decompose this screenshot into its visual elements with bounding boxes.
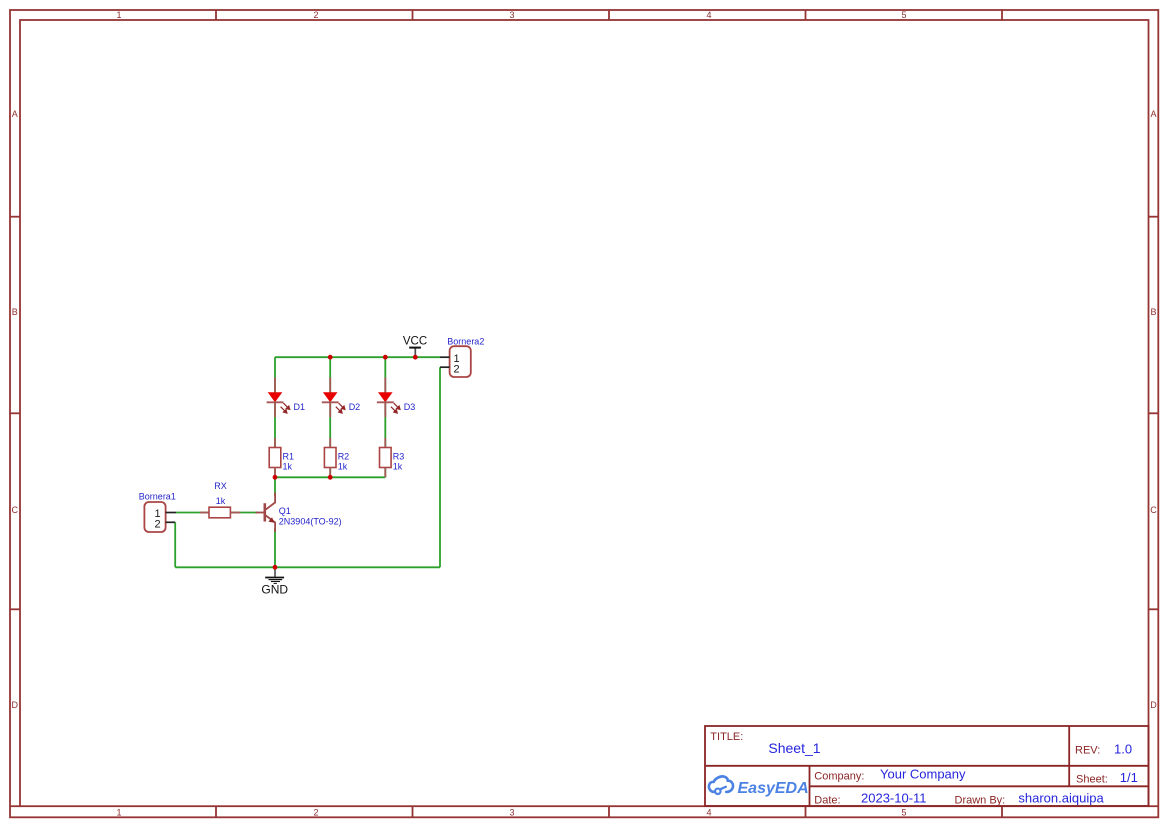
EasyEDA logo bbox=[709, 776, 733, 794]
svg-text:C: C bbox=[1150, 505, 1157, 515]
svg-text:4: 4 bbox=[706, 808, 711, 818]
label R3 value bbox=[393, 452, 405, 472]
svg-text:REV:: REV: bbox=[1075, 745, 1100, 757]
svg-text:Drawn By:: Drawn By: bbox=[955, 794, 1006, 806]
svg-text:GND: GND bbox=[261, 583, 288, 597]
connector Bornera1 bbox=[144, 502, 176, 532]
svg-text:Bornera2: Bornera2 bbox=[447, 336, 484, 346]
resistor RX bbox=[200, 507, 240, 518]
wire Bornera1 pin2 down bbox=[174, 522, 176, 567]
svg-text:2: 2 bbox=[154, 519, 160, 531]
junction top D2 bbox=[328, 355, 333, 360]
wire D1 branch bbox=[274, 357, 276, 477]
junction top D3 bbox=[383, 355, 388, 360]
svg-text:EasyEDA: EasyEDA bbox=[738, 780, 809, 797]
junction GND rail bbox=[273, 565, 278, 570]
svg-text:1: 1 bbox=[116, 10, 121, 20]
svg-text:1/1: 1/1 bbox=[1120, 770, 1138, 785]
svg-text:1k: 1k bbox=[338, 461, 348, 471]
svg-text:Q1: Q1 bbox=[279, 506, 291, 516]
svg-text:sharon.aiquipa: sharon.aiquipa bbox=[1018, 791, 1104, 806]
junction R1 bottom bbox=[273, 475, 278, 480]
svg-text:2N3904(TO-92): 2N3904(TO-92) bbox=[279, 516, 342, 526]
LED D3 bbox=[377, 378, 400, 418]
svg-text:RX: RX bbox=[214, 481, 227, 491]
pin numbers Bornera2 bbox=[453, 353, 459, 375]
resistor R3 bbox=[380, 438, 392, 478]
svg-text:R1: R1 bbox=[283, 452, 295, 462]
svg-text:Your Company: Your Company bbox=[880, 767, 966, 782]
resistor R1 bbox=[269, 438, 281, 478]
svg-text:1k: 1k bbox=[393, 461, 403, 471]
connector Bornera2 bbox=[440, 346, 471, 377]
junction VCC bbox=[413, 355, 418, 360]
svg-text:5: 5 bbox=[901, 10, 906, 20]
svg-text:4: 4 bbox=[706, 10, 711, 20]
svg-text:D: D bbox=[1150, 700, 1157, 710]
wire D2 branch bbox=[329, 357, 331, 477]
svg-text:2: 2 bbox=[313, 808, 318, 818]
svg-text:R2: R2 bbox=[338, 452, 350, 462]
svg-text:A: A bbox=[1150, 109, 1156, 119]
svg-text:R3: R3 bbox=[393, 452, 405, 462]
svg-text:TITLE:: TITLE: bbox=[710, 731, 743, 743]
svg-text:D: D bbox=[11, 700, 18, 710]
LED D2 bbox=[322, 378, 345, 418]
svg-text:D3: D3 bbox=[404, 402, 416, 412]
svg-text:Bornera1: Bornera1 bbox=[139, 492, 176, 502]
svg-text:1: 1 bbox=[116, 808, 121, 818]
junction R2 bottom bbox=[328, 475, 333, 480]
wire VCC top rail bbox=[275, 356, 440, 358]
svg-text:2: 2 bbox=[313, 10, 318, 20]
svg-text:Sheet_1: Sheet_1 bbox=[768, 740, 820, 756]
label R1 value bbox=[283, 452, 295, 472]
wire resistor bottoms rail bbox=[275, 476, 385, 478]
wire D3 branch bbox=[384, 357, 386, 477]
svg-text:D1: D1 bbox=[294, 402, 306, 412]
svg-text:Sheet:: Sheet: bbox=[1076, 773, 1108, 785]
label Q1 value bbox=[279, 506, 342, 527]
svg-text:D2: D2 bbox=[349, 402, 361, 412]
svg-text:VCC: VCC bbox=[403, 336, 427, 348]
LED D1 bbox=[267, 378, 290, 418]
wire collector bbox=[274, 477, 276, 496]
svg-text:1k: 1k bbox=[283, 461, 293, 471]
transistor Q1 bbox=[256, 493, 276, 532]
label RX value bbox=[214, 481, 227, 506]
ground GND bbox=[265, 567, 284, 583]
svg-text:B: B bbox=[1150, 307, 1156, 317]
svg-text:5: 5 bbox=[901, 808, 906, 818]
svg-text:Date:: Date: bbox=[814, 794, 840, 806]
wire base bbox=[176, 512, 258, 514]
power VCC bbox=[409, 348, 421, 358]
svg-text:1.0: 1.0 bbox=[1114, 742, 1132, 757]
resistor R2 bbox=[324, 438, 336, 478]
wire emitter to ground rail bbox=[274, 528, 276, 567]
label R2 value bbox=[338, 452, 350, 472]
wire Bornera2 pin2 down bbox=[439, 367, 441, 567]
svg-text:A: A bbox=[12, 109, 18, 119]
svg-text:3: 3 bbox=[509, 808, 514, 818]
svg-text:B: B bbox=[12, 307, 18, 317]
svg-text:1k: 1k bbox=[216, 496, 226, 506]
svg-text:C: C bbox=[11, 505, 18, 515]
wire ground rail bbox=[175, 566, 440, 568]
svg-text:Company:: Company: bbox=[814, 771, 864, 783]
svg-text:3: 3 bbox=[509, 10, 514, 20]
svg-text:2023-10-11: 2023-10-11 bbox=[861, 791, 927, 806]
svg-text:2: 2 bbox=[453, 363, 459, 375]
pin numbers Bornera1 bbox=[154, 508, 160, 530]
